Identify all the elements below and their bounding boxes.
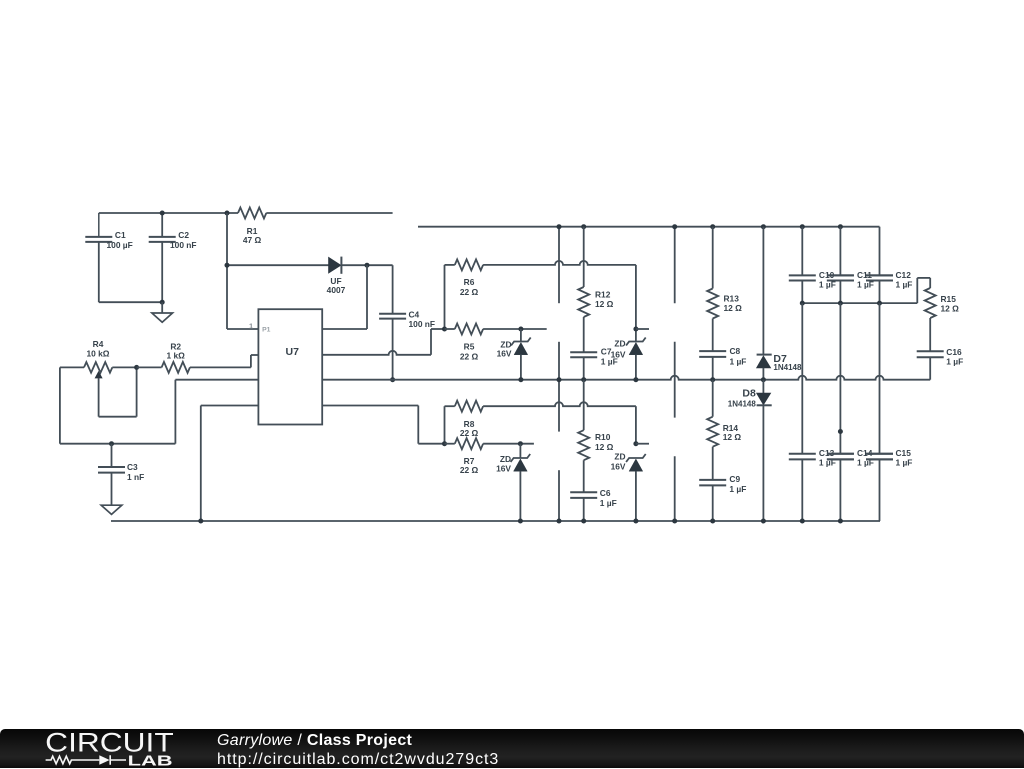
- node diode-out junction: [365, 263, 370, 268]
- node column A bottom: [557, 519, 562, 524]
- label C12 value: [896, 270, 913, 290]
- node C8 bottom junction: [710, 377, 715, 382]
- svg-text:C16: C16: [946, 347, 962, 357]
- svg-text:22 Ω: 22 Ω: [460, 351, 479, 361]
- wire to U7 pin3: [175, 380, 258, 444]
- node R5 left junction: [442, 327, 447, 332]
- capacitor C9: [699, 480, 726, 521]
- wire column A lower: [558, 470, 560, 521]
- svg-text:ZD: ZD: [614, 339, 625, 349]
- label R1 value: [243, 226, 262, 245]
- zener diode ZD1: [511, 329, 531, 380]
- node C9 bottom junction: [710, 519, 715, 524]
- label R15 value: [941, 294, 960, 313]
- node pin4-rail junction: [198, 519, 203, 524]
- svg-text:10 kΩ: 10 kΩ: [86, 348, 109, 358]
- wire ground rail: [111, 520, 880, 522]
- node ZD4 bottom junction: [633, 519, 638, 524]
- svg-text:R12: R12: [595, 290, 611, 300]
- svg-text:12 Ω: 12 Ω: [724, 303, 743, 313]
- wire U7 pin6 route: [322, 329, 444, 355]
- label R7 value: [460, 456, 479, 475]
- node ZD2 stub junction: [633, 327, 638, 332]
- svg-text:C9: C9: [729, 474, 740, 484]
- resistor R14: [707, 380, 718, 480]
- node R4 wiper junction: [134, 365, 139, 370]
- svg-text:D8: D8: [742, 388, 756, 400]
- pot R4 wiper arrow: [95, 367, 136, 416]
- wire R4 to R2: [137, 366, 162, 368]
- zener diode ZD4: [626, 454, 646, 521]
- node C12 mid junction: [877, 301, 882, 306]
- node column A mid-rail: [557, 377, 562, 382]
- svg-text:47 Ω: 47 Ω: [243, 235, 262, 245]
- label C6 value: [600, 488, 617, 508]
- node column B top: [672, 224, 677, 229]
- label C13 value: [819, 448, 836, 468]
- node ZD3 bottom junction: [518, 519, 523, 524]
- label U7: [286, 346, 300, 358]
- node C3 junction: [109, 441, 114, 446]
- node ZD1 bottom junction: [518, 377, 523, 382]
- label R6 value: [460, 277, 479, 297]
- svg-text:22 Ω: 22 Ω: [460, 465, 479, 475]
- svg-text:1N4148: 1N4148: [773, 363, 802, 372]
- label C10 value: [819, 270, 836, 290]
- wire R2 to U7 pin2: [251, 355, 259, 367]
- label C1 value: [107, 230, 133, 250]
- capacitor C16: [917, 351, 944, 379]
- wire top rail VCC-in: [99, 212, 238, 214]
- node column B bottom: [672, 519, 677, 524]
- wire column A middle: [558, 342, 560, 432]
- label ZD4 value: [611, 452, 626, 472]
- label R13 value: [724, 294, 743, 314]
- diode UF 4007: [329, 257, 342, 274]
- wire R6 right: [483, 261, 636, 341]
- wire left loop top: [60, 366, 84, 368]
- resistor R13: [707, 227, 718, 351]
- svg-text:1: 1: [249, 321, 253, 330]
- resistor R2: [162, 362, 251, 373]
- project url: [217, 751, 499, 769]
- svg-text:ZD: ZD: [614, 452, 625, 462]
- resistor R15: [925, 278, 936, 351]
- capacitor C2: [149, 213, 176, 302]
- node ZD4 stub junction: [633, 441, 638, 446]
- label C3 value: [127, 462, 144, 482]
- svg-text:1 µF: 1 µF: [729, 484, 746, 494]
- label C8 value: [730, 346, 747, 366]
- svg-text:1 µF: 1 µF: [896, 458, 913, 468]
- wire rail to U7 pin1: [227, 213, 258, 329]
- node rail-R1 junction: [225, 211, 230, 216]
- svg-text:1 µF: 1 µF: [730, 356, 747, 366]
- node D8 bottom junction: [761, 519, 766, 524]
- svg-text:4007: 4007: [327, 285, 346, 295]
- svg-text:C8: C8: [730, 346, 741, 356]
- label ZD3 value: [496, 454, 511, 473]
- svg-text:12 Ω: 12 Ω: [941, 303, 960, 313]
- label C16 value: [946, 347, 963, 367]
- label R5 value: [460, 342, 479, 362]
- node ZD3 top junction: [518, 441, 523, 446]
- node C1-C2 top junction: [160, 211, 165, 216]
- svg-text:12 Ω: 12 Ω: [595, 299, 614, 309]
- svg-text:C15: C15: [896, 448, 912, 458]
- label R12 value: [595, 290, 614, 310]
- ground G2: [101, 505, 122, 514]
- capacitor C10: [789, 227, 816, 303]
- svg-text:1 µF: 1 µF: [601, 357, 618, 367]
- svg-text:C2: C2: [178, 230, 189, 240]
- wire column B lower: [674, 456, 676, 521]
- svg-text:16V: 16V: [497, 349, 512, 359]
- svg-text:1 kΩ: 1 kΩ: [167, 350, 186, 360]
- label C11 value: [857, 270, 874, 290]
- resistor R4 potentiometer: [84, 362, 137, 373]
- resistor R12: [578, 227, 589, 352]
- node C6 bottom junction: [581, 519, 586, 524]
- label C14 value: [857, 448, 874, 468]
- node C11 top junction: [838, 224, 843, 229]
- node ZD2 bottom junction: [633, 377, 638, 382]
- node C1-C2 bottom junction: [160, 300, 165, 305]
- capacitor C15: [866, 303, 893, 521]
- svg-text:U7: U7: [286, 346, 300, 358]
- label C4 value: [409, 310, 436, 329]
- svg-text:12 Ω: 12 Ω: [723, 432, 742, 442]
- wire U7 pin8 route: [322, 406, 444, 444]
- svg-text:100 µF: 100 µF: [107, 240, 133, 250]
- svg-text:C3: C3: [127, 462, 138, 472]
- svg-text:100 nF: 100 nF: [409, 319, 436, 329]
- wire column B middle: [674, 342, 676, 418]
- wire left loop down: [59, 367, 61, 443]
- resistor R6: [455, 259, 483, 270]
- wire R15 feed: [917, 278, 930, 303]
- svg-text:C7: C7: [601, 347, 612, 357]
- wire R6 left: [445, 265, 455, 329]
- wire diode feed: [227, 264, 329, 266]
- svg-text:C1: C1: [115, 230, 126, 240]
- wire top rail 2: [418, 226, 880, 228]
- zener diode ZD3: [511, 444, 531, 521]
- capacitor C14: [827, 303, 854, 521]
- svg-text:1N4148: 1N4148: [728, 400, 757, 409]
- resistor R1: [238, 208, 393, 219]
- svg-text:100 nF: 100 nF: [170, 240, 197, 250]
- capacitor C7: [570, 352, 597, 379]
- node C7 bottom junction: [581, 377, 586, 382]
- capacitor C8: [699, 351, 726, 380]
- label C9 value: [729, 474, 746, 494]
- svg-text:12 Ω: 12 Ω: [595, 442, 614, 452]
- op-amp U7 box: [258, 309, 322, 424]
- node R12 top junction: [581, 224, 586, 229]
- capacitor C6: [570, 492, 597, 521]
- label C7 value: [601, 347, 618, 367]
- wire U7 pin5 to diode row: [322, 265, 367, 329]
- wire diode out: [341, 264, 393, 266]
- wire column B upper: [674, 227, 676, 304]
- node diode-row junction: [225, 263, 230, 268]
- node D7 bottom junction: [761, 377, 766, 382]
- capacitor C11 plates overlay: [827, 275, 854, 280]
- svg-text:R10: R10: [595, 432, 611, 442]
- CircuitLab logo: [30, 728, 240, 768]
- wire U7 pin4 route: [201, 406, 259, 522]
- label R8 value: [460, 419, 479, 438]
- label D7 value: [773, 353, 802, 372]
- svg-text:P1: P1: [262, 326, 271, 333]
- svg-text:22 Ω: 22 Ω: [460, 287, 479, 297]
- node C4 bottom junction: [390, 377, 395, 382]
- svg-text:1 µF: 1 µF: [946, 357, 963, 367]
- label R10 value: [595, 432, 614, 452]
- project title: [217, 732, 412, 750]
- label R14 value: [723, 423, 742, 442]
- node D7 top junction: [761, 224, 766, 229]
- node R7 left junction: [442, 441, 447, 446]
- svg-text:1 nF: 1 nF: [127, 472, 144, 482]
- label D8 value: [728, 388, 757, 409]
- wire cap bank mid row: [802, 302, 917, 304]
- svg-text:16V: 16V: [496, 463, 511, 473]
- capacitor C11: [827, 227, 854, 303]
- zener diode ZD2: [626, 338, 646, 380]
- svg-text:C6: C6: [600, 488, 611, 498]
- resistor R7: [445, 438, 534, 449]
- ground G1: [152, 302, 173, 322]
- label ZD2 value: [611, 339, 626, 360]
- capacitor C15 plates overlay: [866, 454, 893, 460]
- label UF 4007: [327, 276, 346, 295]
- label R2 value: [167, 341, 186, 360]
- capacitor C12 plates overlay: [866, 275, 893, 280]
- svg-text:R13: R13: [724, 294, 740, 304]
- resistor R8: [455, 401, 483, 412]
- node C10 mid junction: [800, 301, 805, 306]
- svg-text:1 µF: 1 µF: [600, 498, 617, 508]
- wire mid rail: [322, 376, 930, 380]
- svg-text:LAB: LAB: [128, 752, 173, 768]
- wire left loop bottom: [60, 443, 175, 445]
- resistor R5: [445, 324, 547, 335]
- diode D7: [757, 227, 772, 380]
- wire R8 right: [483, 402, 636, 444]
- node R13 top junction: [710, 224, 715, 229]
- svg-text:C12: C12: [896, 270, 912, 280]
- node ZD1 top junction: [518, 327, 523, 332]
- capacitor C4: [379, 265, 406, 380]
- svg-text:R6: R6: [464, 277, 475, 287]
- node C10 top junction: [800, 224, 805, 229]
- node C14 wire junction: [838, 429, 843, 434]
- wire R8 left: [445, 406, 455, 444]
- wire ZD4 stub: [636, 443, 649, 445]
- svg-text:16V: 16V: [611, 462, 626, 472]
- svg-text:1 µF: 1 µF: [896, 279, 913, 289]
- wire column A upper: [558, 227, 560, 304]
- label R4 value: [86, 339, 109, 358]
- diode D8: [757, 380, 772, 521]
- node C11 mid junction: [838, 301, 843, 306]
- capacitor C3: [98, 444, 125, 506]
- capacitor C14 plates overlay: [827, 454, 854, 460]
- label P1: [262, 326, 271, 333]
- wire ZD2 stub: [636, 328, 649, 330]
- node C14 bottom junction: [838, 519, 843, 524]
- label ZD1 value: [497, 339, 512, 358]
- wire C1-C2 bottom: [99, 301, 162, 303]
- svg-text:R5: R5: [464, 342, 475, 352]
- label pin 1: [249, 321, 253, 330]
- capacitor C1: [85, 213, 112, 302]
- capacitor C12: [866, 227, 893, 303]
- capacitor C13: [789, 303, 816, 521]
- footer bar: [0, 729, 1024, 768]
- label C15 value: [896, 448, 913, 468]
- node column A top: [557, 224, 562, 229]
- node C13 bottom junction: [800, 519, 805, 524]
- svg-text:22 Ω: 22 Ω: [460, 428, 479, 438]
- label C2 value: [170, 230, 197, 250]
- resistor R10: [578, 380, 589, 492]
